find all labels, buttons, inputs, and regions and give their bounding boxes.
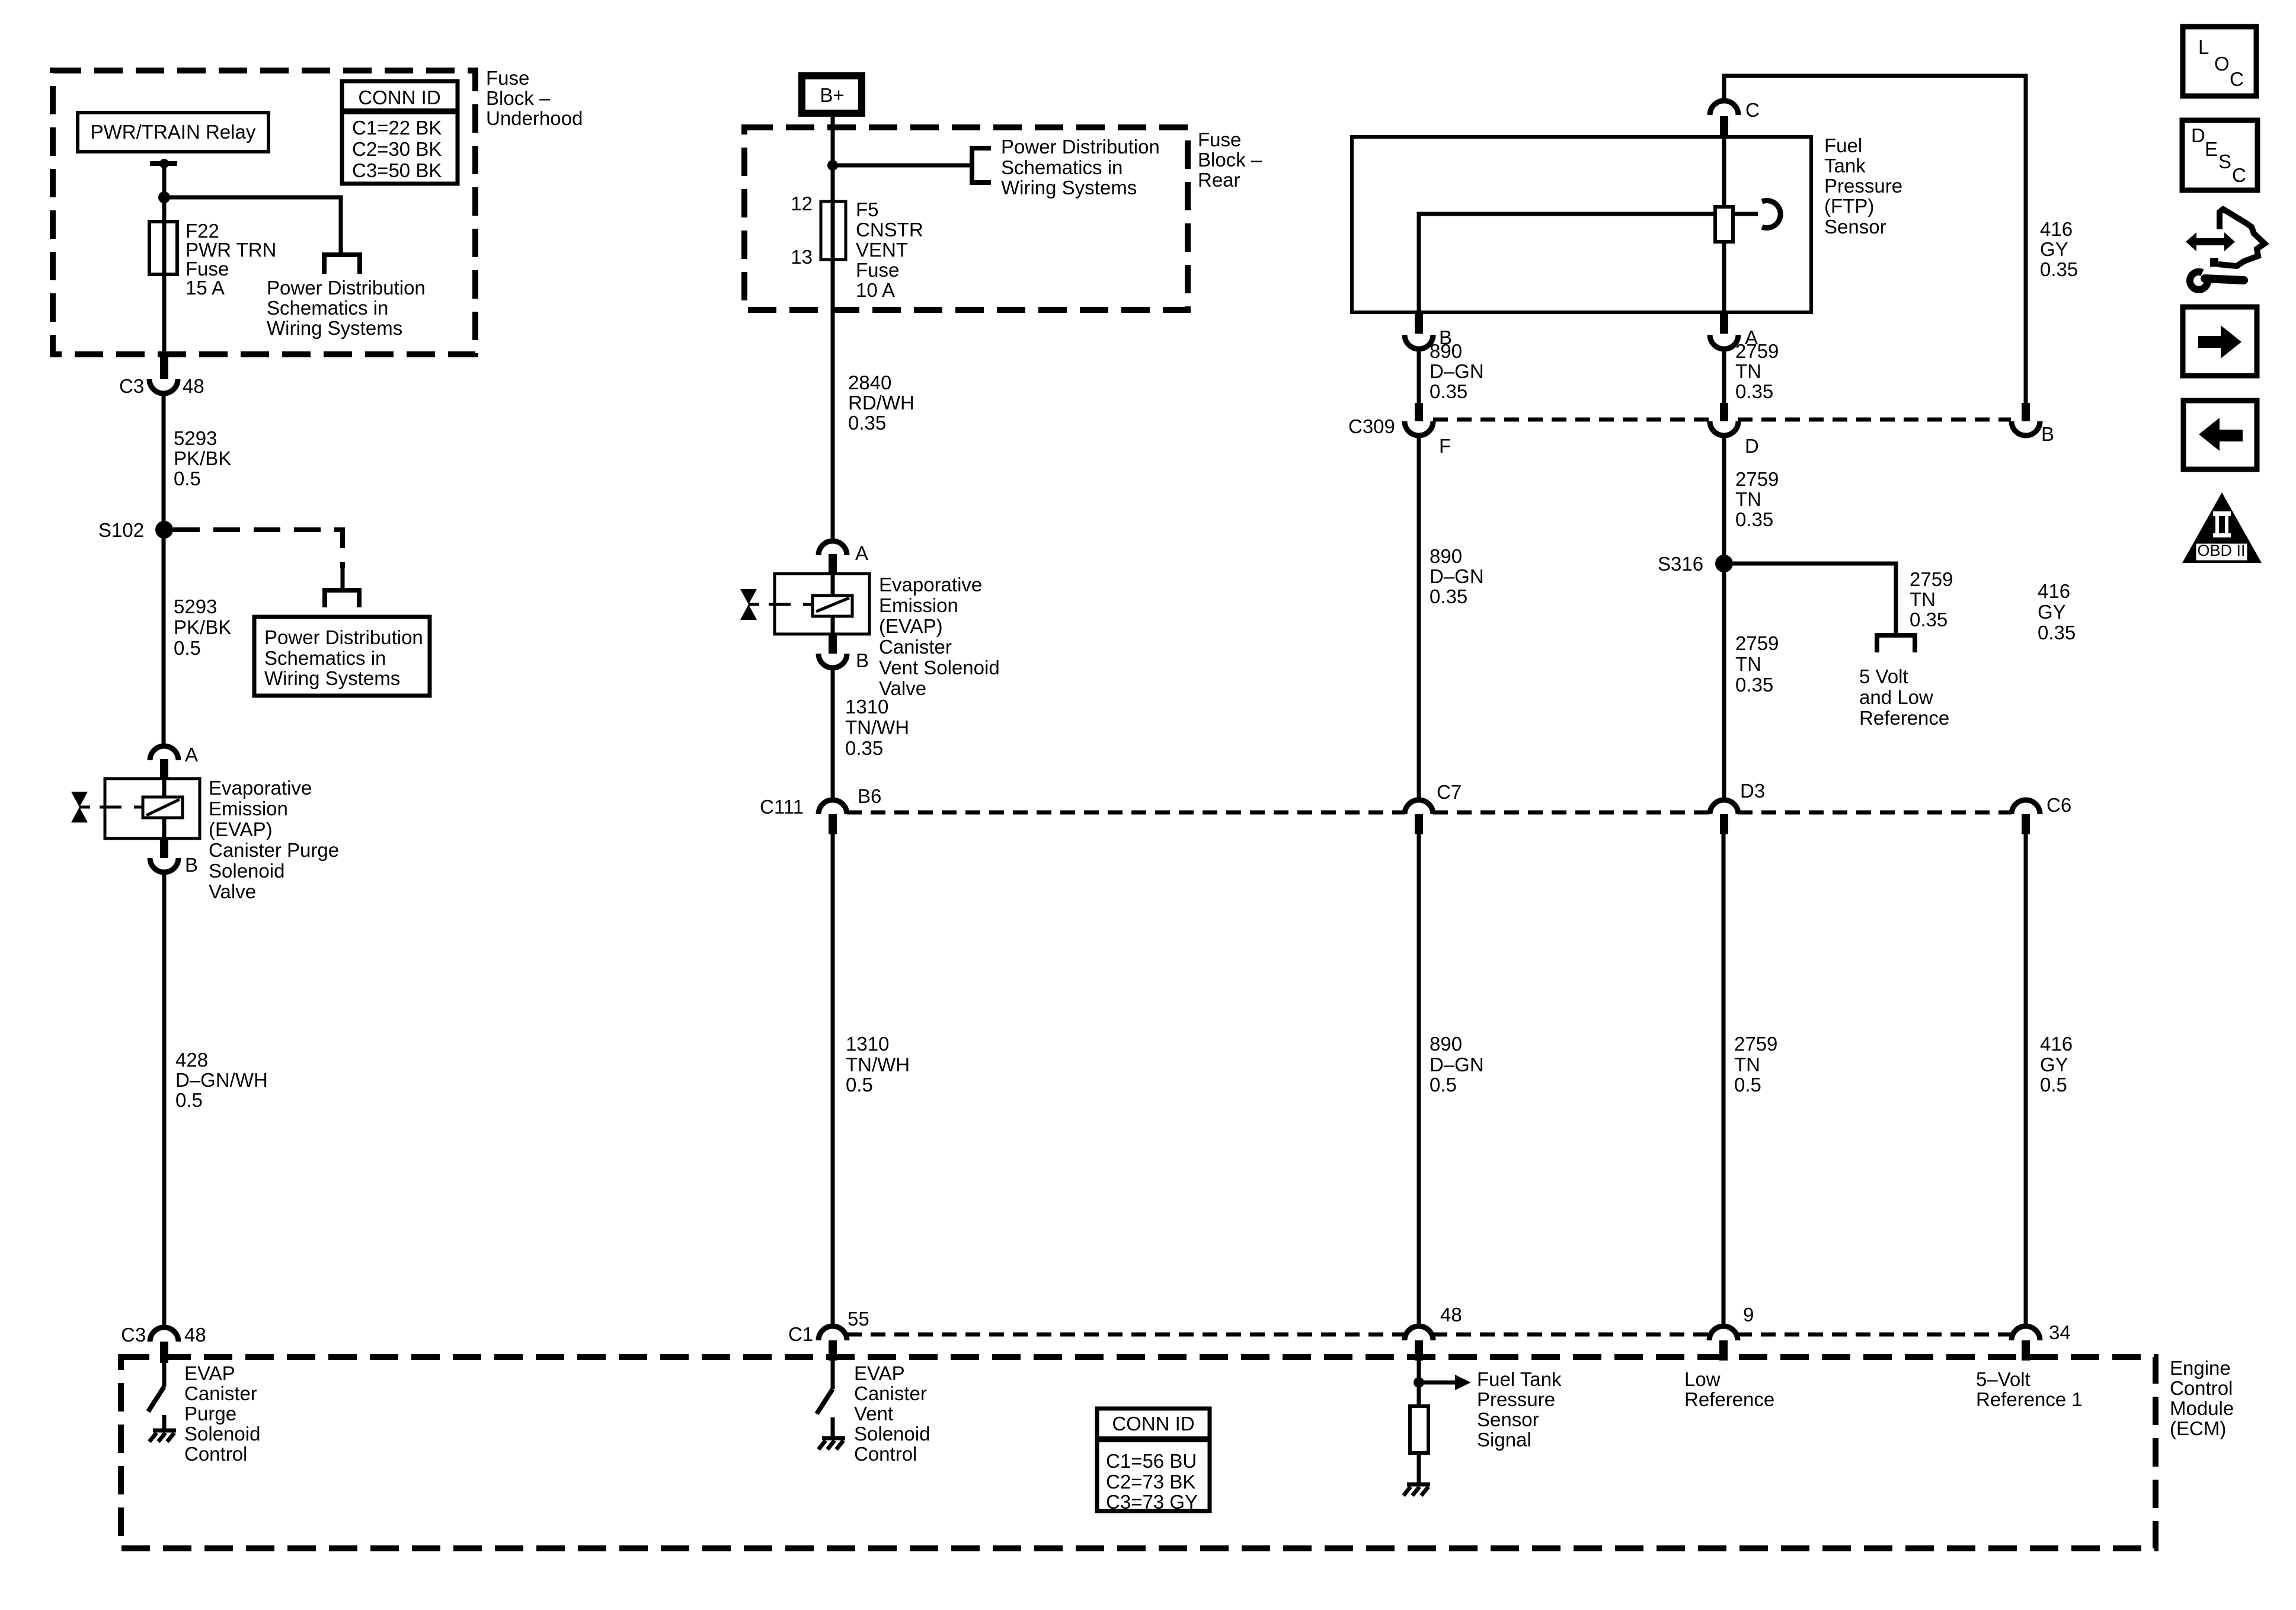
svg-text:TN: TN — [1734, 1054, 1760, 1076]
wire branch to bracket — [833, 164, 972, 168]
wire 890 short — [1417, 349, 1421, 406]
label F5 CNSTR VENT Fuse 10 A — [856, 199, 923, 301]
label 2759 TN 0.5 — [1734, 1033, 1777, 1096]
svg-text:Reference: Reference — [1859, 707, 1949, 729]
label 428 D-GN/WH 0.5 — [175, 1049, 268, 1111]
dashed connector row C309 — [1433, 418, 2011, 422]
svg-text:C3: C3 — [119, 375, 144, 397]
svg-text:C2=73 BK: C2=73 BK — [1106, 1471, 1195, 1493]
svg-text:C111: C111 — [760, 796, 804, 818]
wire top feed to 416 GY — [1724, 76, 2026, 405]
svg-text:Emission: Emission — [209, 798, 288, 820]
svg-text:F5: F5 — [856, 199, 879, 220]
svg-text:0.35: 0.35 — [1430, 585, 1467, 607]
label 1310 TN/WH 0.35 — [845, 696, 909, 759]
svg-text:5 Volt: 5 Volt — [1859, 665, 1908, 687]
svg-text:Valve: Valve — [209, 881, 256, 902]
svg-text:C7: C7 — [1437, 781, 1462, 803]
icon connector repair — [2186, 209, 2265, 290]
connector pin A FTP — [1710, 312, 1758, 349]
svg-text:A: A — [855, 542, 868, 564]
svg-text:B6: B6 — [858, 785, 881, 807]
connector C1 pin 34 — [2012, 1321, 2071, 1361]
svg-text:Schematics in: Schematics in — [267, 297, 388, 319]
svg-text:Low: Low — [1684, 1368, 1721, 1390]
svg-text:0.35: 0.35 — [1430, 380, 1467, 402]
svg-text:E: E — [2205, 138, 2218, 160]
label fuel tank pressure sensor signal — [1477, 1368, 1562, 1451]
svg-text:5293: 5293 — [174, 596, 217, 617]
off-page connector bracket 2 — [325, 590, 359, 607]
svg-text:Block –: Block – — [486, 87, 551, 109]
svg-text:890: 890 — [1430, 545, 1462, 567]
label power distribution 3 — [1001, 136, 1160, 199]
svg-text:0.35: 0.35 — [2038, 622, 2076, 644]
svg-text:S316: S316 — [1658, 553, 1703, 575]
svg-text:890: 890 — [1430, 340, 1462, 362]
label 890 D-GN 0.35 lower — [1430, 545, 1484, 607]
svg-text:S102: S102 — [98, 519, 144, 541]
svg-text:GY: GY — [2040, 1054, 2068, 1076]
svg-text:1310: 1310 — [846, 1033, 889, 1055]
svg-text:D–GN: D–GN — [1430, 1054, 1484, 1076]
svg-text:Emission: Emission — [879, 594, 958, 616]
svg-text:CONN ID: CONN ID — [1112, 1413, 1194, 1435]
fuse block underhood dashed box — [53, 71, 475, 354]
fuse block rear dashed box — [744, 127, 1188, 310]
label 890 D-GN 0.35 upper — [1430, 340, 1484, 402]
CONN ID table underhood — [342, 81, 458, 184]
svg-text:GY: GY — [2038, 601, 2066, 623]
connector C3 pin 48 bottom — [121, 1324, 206, 1363]
svg-text:55: 55 — [848, 1308, 869, 1330]
svg-text:Underhood: Underhood — [486, 107, 583, 129]
svg-text:CNSTR: CNSTR — [856, 219, 923, 241]
svg-text:D: D — [2191, 124, 2205, 146]
label 416 GY 0.5 — [2040, 1033, 2073, 1096]
svg-text:RD/WH: RD/WH — [848, 392, 914, 414]
svg-text:Power Distribution: Power Distribution — [1001, 136, 1160, 158]
svg-text:Signal: Signal — [1477, 1429, 1531, 1451]
svg-text:34: 34 — [2049, 1321, 2071, 1343]
svg-text:0.5: 0.5 — [1430, 1074, 1457, 1096]
wire 1310 upper — [831, 668, 835, 801]
svg-text:B: B — [185, 854, 198, 876]
svg-text:0.35: 0.35 — [1735, 380, 1773, 402]
svg-text:Solenoid: Solenoid — [854, 1423, 930, 1445]
label 2759 TN 0.35 upper — [1735, 340, 1779, 402]
label vent valve — [879, 574, 1000, 699]
svg-text:D–GN: D–GN — [1430, 565, 1484, 587]
svg-text:Control: Control — [854, 1443, 917, 1465]
svg-text:VENT: VENT — [856, 239, 908, 261]
svg-text:C309: C309 — [1348, 415, 1395, 437]
svg-text:PWR/TRAIN Relay: PWR/TRAIN Relay — [91, 121, 256, 143]
junction node 2 — [827, 160, 838, 171]
svg-text:C1=56 BU: C1=56 BU — [1106, 1450, 1197, 1472]
svg-text:TN: TN — [1735, 360, 1761, 382]
svg-text:Pressure: Pressure — [1824, 175, 1902, 197]
svg-text:0.35: 0.35 — [2040, 258, 2078, 280]
svg-text:D3: D3 — [1740, 780, 1765, 802]
off-page connector bracket 3 — [972, 148, 991, 183]
svg-text:890: 890 — [1430, 1033, 1462, 1055]
svg-text:Fuel: Fuel — [1824, 135, 1862, 156]
label EVAP canister purge solenoid control — [184, 1362, 260, 1465]
icon LOC box — [2183, 27, 2256, 96]
svg-text:0.35: 0.35 — [1735, 674, 1773, 696]
svg-text:Vent: Vent — [854, 1403, 893, 1425]
svg-text:Schematics in: Schematics in — [1001, 156, 1123, 178]
svg-text:Vent Solenoid: Vent Solenoid — [879, 657, 1000, 678]
svg-text:S: S — [2218, 151, 2231, 172]
svg-text:Engine: Engine — [2170, 1357, 2231, 1379]
svg-text:12: 12 — [791, 193, 813, 215]
svg-text:48: 48 — [184, 1324, 206, 1346]
splice S316 — [1658, 553, 1733, 575]
svg-text:C3=73 GY: C3=73 GY — [1106, 1491, 1198, 1513]
svg-text:Canister: Canister — [184, 1382, 257, 1404]
ground vent control — [818, 1417, 845, 1449]
connector pin A purge valve — [150, 744, 198, 779]
label EVAP canister vent solenoid control — [854, 1362, 930, 1465]
wire 890 0.5 — [1417, 834, 1421, 1327]
wire relay to C3 — [162, 164, 167, 356]
svg-text:10 A: 10 A — [856, 279, 895, 301]
label Fuse Block Underhood — [486, 67, 583, 129]
svg-text:TN/WH: TN/WH — [845, 716, 909, 738]
ECM dashed box — [121, 1357, 2156, 1548]
svg-text:Solenoid: Solenoid — [209, 860, 284, 882]
svg-text:Wiring Systems: Wiring Systems — [1001, 177, 1137, 199]
svg-text:0.5: 0.5 — [1734, 1074, 1761, 1096]
svg-text:C3=50 BK: C3=50 BK — [352, 159, 442, 181]
svg-text:C3: C3 — [121, 1324, 146, 1346]
svg-text:(EVAP): (EVAP) — [209, 818, 273, 840]
icon back arrow box — [2183, 401, 2257, 469]
svg-text:A: A — [185, 744, 198, 766]
label 5293 PK/BK 0.5 upper — [174, 427, 231, 489]
wire 5293 to S102 — [162, 393, 166, 746]
svg-text:2759: 2759 — [1734, 1033, 1777, 1055]
svg-text:Fuse: Fuse — [1198, 129, 1241, 151]
svg-text:(ECM): (ECM) — [2170, 1417, 2226, 1439]
svg-text:Evaporative: Evaporative — [879, 574, 982, 596]
svg-text:Solenoid: Solenoid — [184, 1423, 260, 1445]
svg-text:C: C — [1745, 99, 1760, 121]
wire 416 0.5 — [2024, 834, 2028, 1327]
svg-text:Canister: Canister — [879, 636, 952, 658]
svg-text:0.35: 0.35 — [848, 412, 886, 434]
connector C111 pin C6 — [2012, 794, 2071, 834]
svg-text:2840: 2840 — [848, 372, 891, 393]
label purge valve — [209, 777, 339, 902]
svg-text:Pressure: Pressure — [1477, 1388, 1555, 1410]
svg-text:2759: 2759 — [1735, 340, 1779, 362]
connector C309 pin B — [2012, 403, 2054, 445]
connector pin B purge valve — [150, 838, 198, 876]
svg-text:0.35: 0.35 — [845, 737, 883, 759]
svg-text:Purge: Purge — [184, 1403, 236, 1425]
svg-text:PK/BK: PK/BK — [174, 447, 231, 469]
label 416 GY 0.35 top — [2040, 218, 2078, 280]
svg-text:OBD II: OBD II — [2197, 542, 2245, 559]
wire 2759 0.5 — [1722, 834, 1726, 1327]
wire branch from S316 — [1724, 564, 1896, 635]
junction node — [158, 191, 170, 203]
svg-text:Reference: Reference — [1684, 1388, 1774, 1410]
label 1310 TN/WH 0.5 — [846, 1033, 910, 1096]
wire branch to power distribution — [164, 197, 341, 255]
svg-text:2759: 2759 — [1910, 568, 1953, 590]
wire 2759 short — [1722, 349, 1726, 406]
relay PWR/TRAIN — [78, 113, 268, 152]
svg-text:Fuse: Fuse — [486, 67, 529, 89]
label 5293 PK/BK 0.5 lower — [174, 596, 231, 659]
svg-text:and Low: and Low — [1859, 686, 1933, 708]
svg-text:Reference 1: Reference 1 — [1976, 1388, 2083, 1410]
battery feed B+ — [802, 76, 862, 113]
svg-text:O: O — [2214, 53, 2230, 75]
connector C1 pin 55 — [788, 1308, 869, 1361]
label FTP sensor — [1824, 135, 1902, 238]
wire B+ down — [831, 113, 835, 541]
off-page connector bracket 4 — [1877, 635, 1915, 652]
svg-text:Sensor: Sensor — [1824, 216, 1886, 238]
fuse F22 — [149, 222, 177, 274]
label engine control module — [2170, 1357, 2234, 1439]
svg-text:0.35: 0.35 — [1735, 508, 1773, 530]
resistor FTP pulldown — [1410, 1406, 1428, 1484]
svg-text:CONN ID: CONN ID — [358, 87, 440, 108]
svg-text:Canister Purge: Canister Purge — [209, 839, 339, 861]
connector C111 pin D3 — [1710, 780, 1765, 834]
label 416 GY 0.35 right — [2038, 580, 2076, 644]
label 2759 TN 0.35 below S316 — [1735, 632, 1779, 696]
svg-text:Module: Module — [2170, 1397, 2234, 1419]
connector C309 pin F — [1348, 403, 1451, 457]
svg-text:TN: TN — [1735, 488, 1761, 510]
icon forward arrow box — [2183, 307, 2257, 376]
svg-text:13: 13 — [791, 246, 813, 268]
svg-text:TN/WH: TN/WH — [846, 1054, 910, 1076]
relay terminal bar — [150, 161, 177, 166]
svg-text:TN: TN — [1735, 653, 1761, 675]
svg-text:Canister: Canister — [854, 1382, 927, 1404]
ground purge control — [149, 1415, 176, 1442]
dashed connector row C111 — [847, 811, 2012, 815]
svg-text:D–GN/WH: D–GN/WH — [175, 1069, 268, 1091]
wire 890 to C111 — [1417, 436, 1421, 801]
svg-text:B: B — [856, 649, 869, 671]
svg-text:Schematics in: Schematics in — [264, 647, 386, 669]
svg-text:Wiring Systems: Wiring Systems — [264, 667, 400, 689]
EVAP canister purge solenoid valve — [71, 779, 200, 838]
svg-text:B+: B+ — [820, 84, 844, 106]
svg-text:TN: TN — [1910, 588, 1936, 610]
svg-text:Power Distribution: Power Distribution — [264, 626, 423, 648]
icon DESC box — [2182, 120, 2257, 190]
label 890 D-GN 0.5 — [1430, 1033, 1484, 1096]
label 2759 TN 0.35 mid — [1735, 468, 1779, 530]
CONN ID table ECM — [1097, 1409, 1210, 1513]
connector C3 pin 48 top — [119, 356, 204, 397]
connector C111 pin C7 — [1405, 781, 1462, 834]
svg-text:0.5: 0.5 — [2040, 1074, 2067, 1096]
boxed label power distribution 2 — [254, 617, 430, 696]
svg-text:B: B — [2041, 423, 2054, 445]
fuse F5 — [791, 193, 846, 268]
svg-text:5293: 5293 — [174, 427, 217, 449]
svg-text:Power Distribution: Power Distribution — [267, 277, 426, 299]
switch EVAP purge control — [148, 1363, 164, 1411]
svg-text:9: 9 — [1743, 1304, 1754, 1326]
connector pin C FTP sensor — [1710, 99, 1760, 137]
svg-text:2759: 2759 — [1735, 632, 1779, 654]
wire 428 — [162, 872, 167, 1327]
svg-text:F: F — [1439, 435, 1451, 457]
connector C309 pin D — [1710, 403, 1759, 457]
connector C111 pin B6 — [760, 785, 881, 834]
dashed connector row C1 — [847, 1333, 2013, 1337]
fuel tank pressure sensor box — [1352, 137, 1811, 312]
svg-text:L: L — [2198, 36, 2209, 58]
svg-text:(EVAP): (EVAP) — [879, 615, 943, 637]
label F22 PWR TRN Fuse 15 A — [186, 220, 276, 299]
svg-text:C1=22 BK: C1=22 BK — [352, 117, 442, 139]
wire 2759 to S316 — [1722, 436, 1726, 801]
connector pin B vent valve — [818, 634, 869, 671]
EVAP canister vent solenoid valve — [740, 574, 869, 634]
connector pin B FTP — [1405, 312, 1452, 349]
ground FTP signal — [1403, 1484, 1430, 1496]
svg-text:Control: Control — [2170, 1377, 2233, 1399]
label 5-volt reference 1 — [1976, 1368, 2083, 1410]
svg-text:(FTP): (FTP) — [1824, 195, 1874, 217]
FTP sensor signal node — [1414, 1361, 1471, 1406]
svg-text:0.35: 0.35 — [1910, 609, 1948, 630]
svg-text:5–Volt: 5–Volt — [1976, 1368, 2030, 1390]
svg-text:15 A: 15 A — [186, 277, 225, 299]
svg-text:EVAP: EVAP — [184, 1362, 235, 1384]
svg-text:0.5: 0.5 — [174, 468, 201, 489]
svg-text:C: C — [2232, 164, 2246, 186]
svg-text:C2=30 BK: C2=30 BK — [352, 138, 442, 160]
svg-text:Rear: Rear — [1198, 169, 1240, 191]
svg-text:Sensor: Sensor — [1477, 1409, 1539, 1430]
svg-text:Fuse: Fuse — [856, 259, 899, 281]
svg-text:PK/BK: PK/BK — [174, 616, 231, 638]
svg-text:416: 416 — [2038, 580, 2070, 602]
dashed branch wire from S102 — [173, 530, 343, 568]
svg-text:C1: C1 — [788, 1323, 813, 1345]
svg-text:D–GN: D–GN — [1430, 360, 1484, 382]
label Fuse Block Rear — [1198, 129, 1262, 191]
connector C1 pin 9 — [1709, 1304, 1754, 1361]
label power distribution 1 — [267, 277, 426, 339]
svg-text:416: 416 — [2040, 1033, 2073, 1055]
label 2759 TN 0.35 branch — [1910, 568, 1953, 630]
svg-text:0.5: 0.5 — [174, 637, 201, 659]
svg-text:0.5: 0.5 — [175, 1089, 203, 1111]
svg-text:48: 48 — [183, 375, 204, 397]
svg-text:EVAP: EVAP — [854, 1362, 905, 1384]
connector C1 pin 48 — [1405, 1304, 1462, 1361]
svg-text:Evaporative: Evaporative — [209, 777, 312, 799]
label 2840 RD/WH 0.35 — [848, 372, 914, 434]
svg-text:Control: Control — [184, 1443, 247, 1465]
wire 1310 lower — [831, 834, 835, 1327]
svg-text:Fuel Tank: Fuel Tank — [1477, 1368, 1562, 1390]
connector pin A vent valve — [818, 541, 868, 574]
switch EVAP vent control — [817, 1361, 833, 1414]
svg-text:D: D — [1745, 435, 1759, 457]
svg-text:GY: GY — [2040, 238, 2068, 260]
icon OBD II triangle — [2182, 492, 2262, 563]
label 5 volt and low reference — [1859, 665, 1949, 729]
svg-text:416: 416 — [2040, 218, 2073, 240]
svg-text:Wiring Systems: Wiring Systems — [267, 317, 402, 339]
svg-text:C: C — [2230, 68, 2244, 90]
svg-text:2759: 2759 — [1735, 468, 1779, 490]
label low reference — [1684, 1368, 1774, 1410]
svg-text:Block –: Block – — [1198, 149, 1262, 171]
svg-text:Tank: Tank — [1824, 155, 1866, 177]
splice S102 — [98, 519, 173, 541]
off-page connector bracket — [324, 255, 360, 274]
svg-text:428: 428 — [175, 1049, 208, 1071]
svg-text:0.5: 0.5 — [846, 1074, 873, 1096]
svg-text:1310: 1310 — [845, 696, 888, 718]
svg-text:48: 48 — [1440, 1304, 1462, 1326]
svg-text:C6: C6 — [2046, 794, 2071, 816]
